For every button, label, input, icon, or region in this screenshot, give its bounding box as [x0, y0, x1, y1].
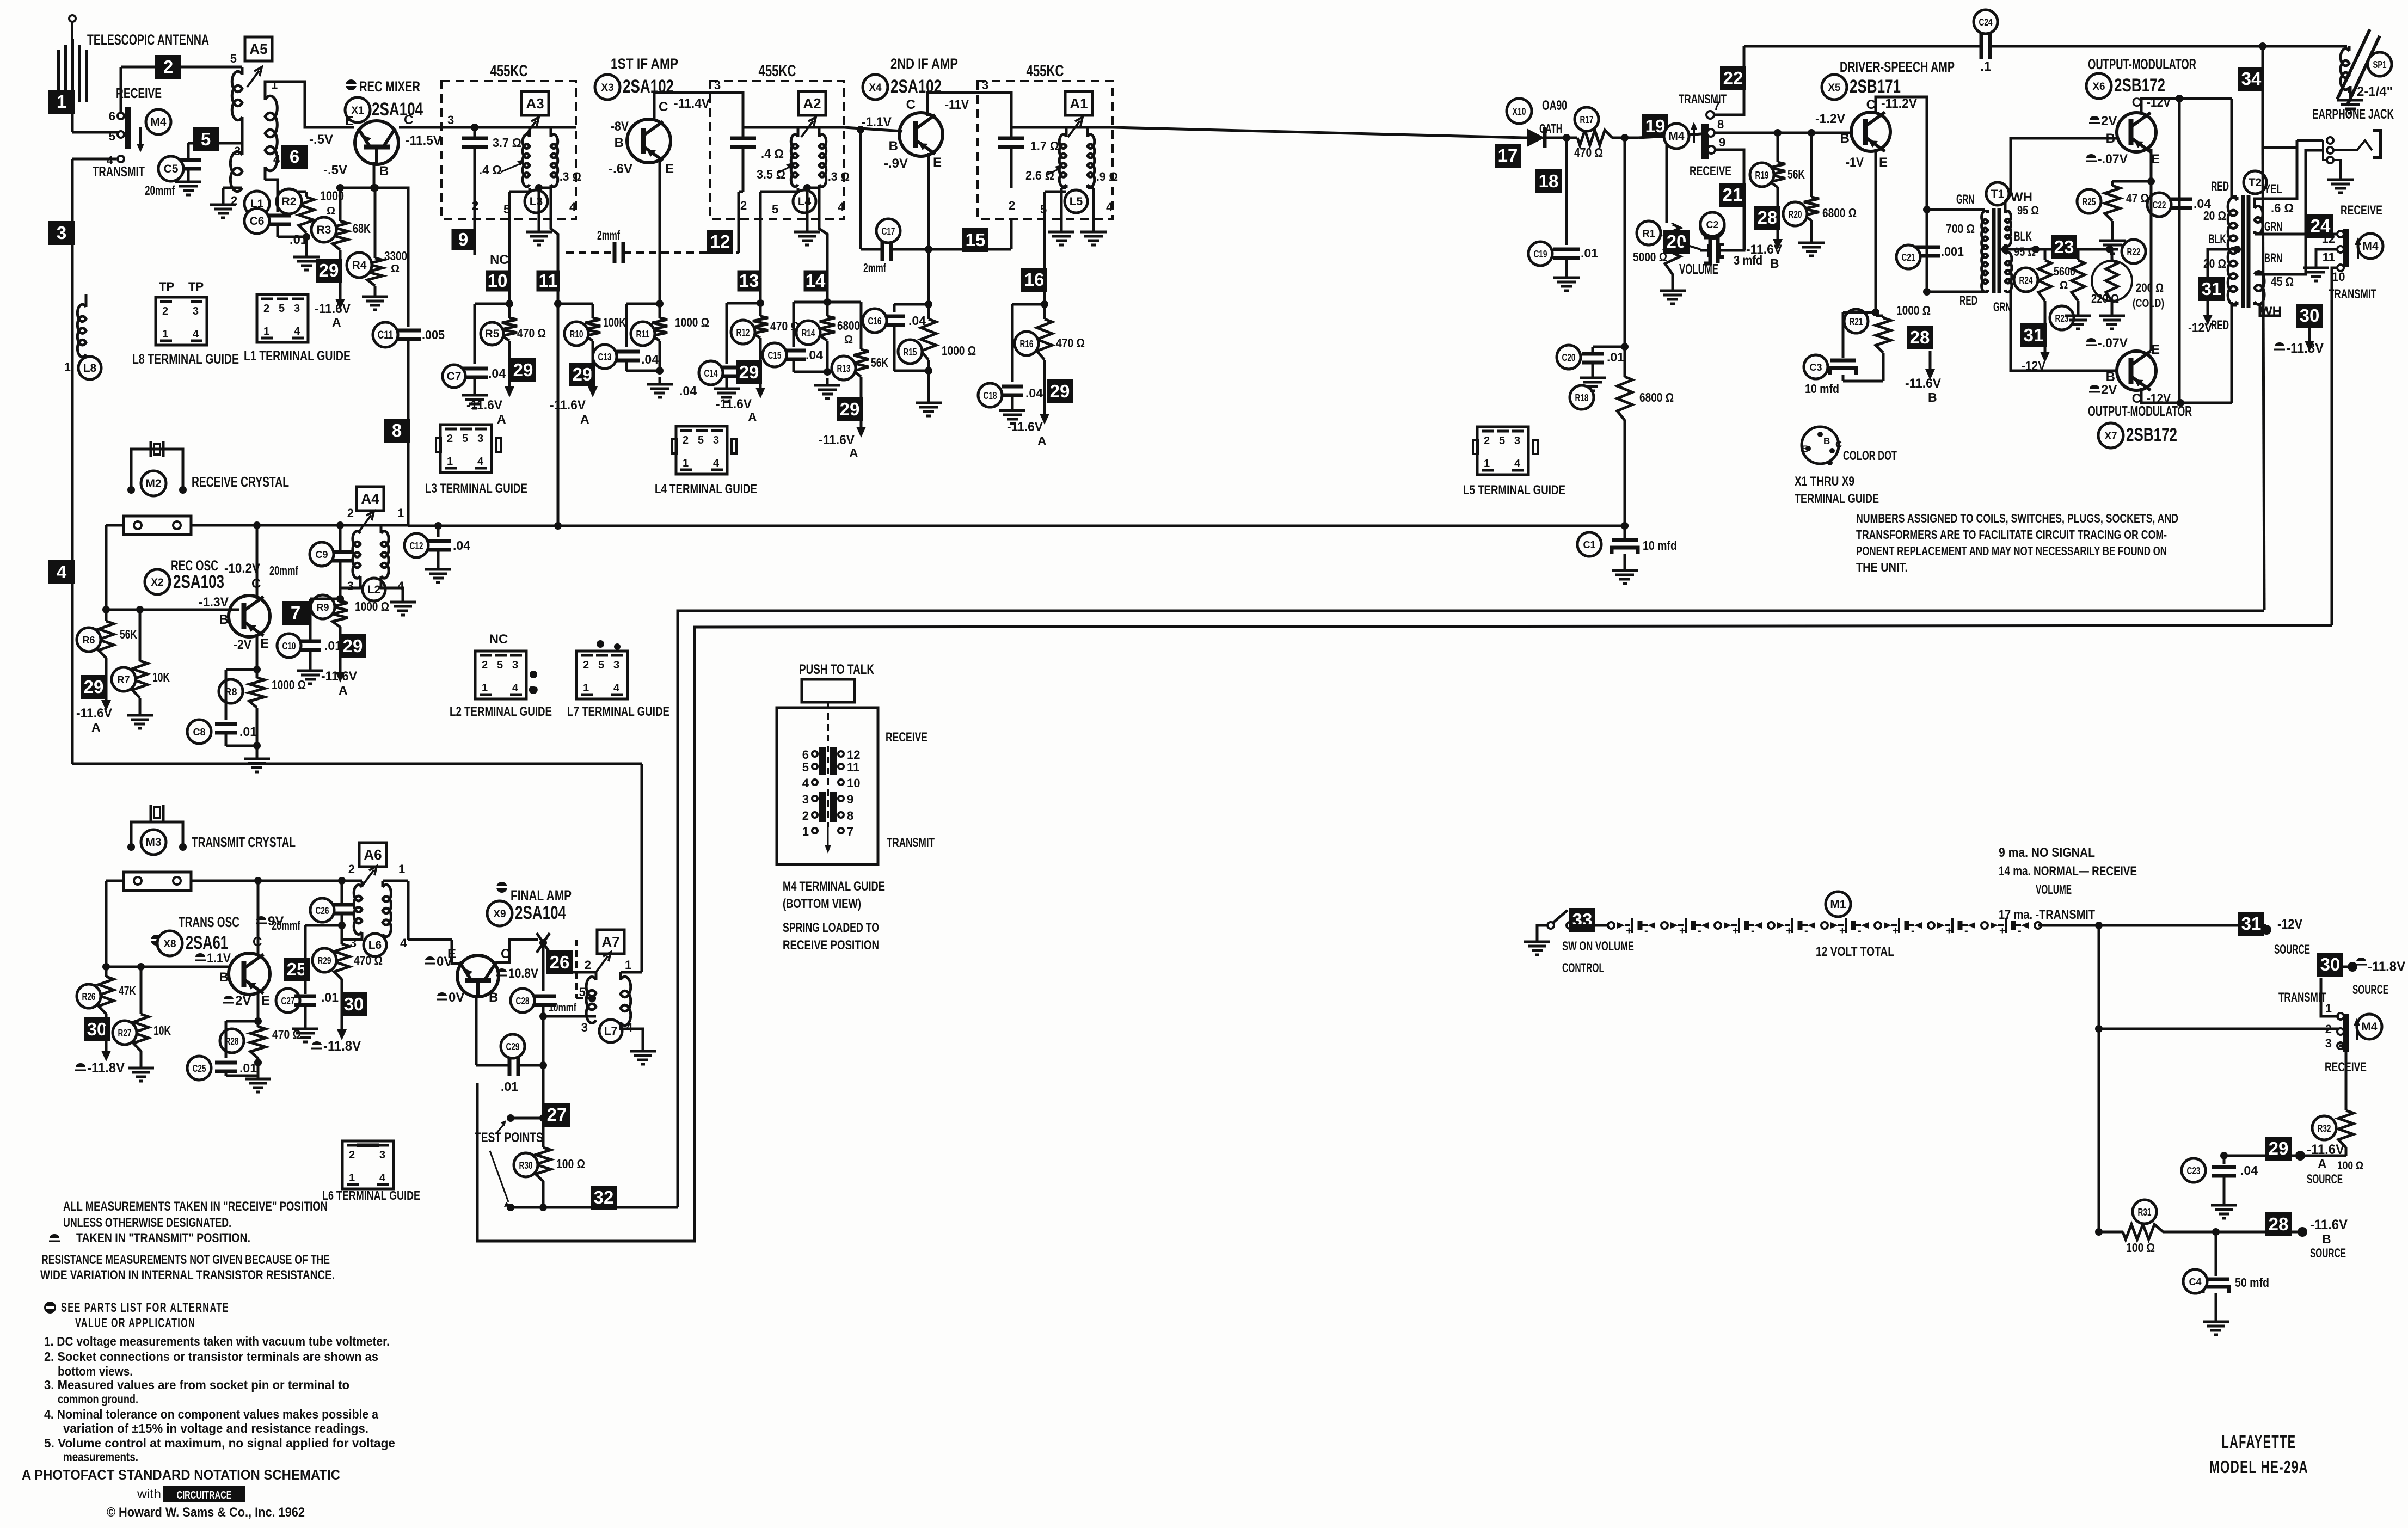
svg-text:-.5V: -.5V	[323, 163, 347, 177]
svg-text:R13: R13	[837, 363, 851, 374]
label C18 value	[1025, 386, 1043, 400]
circle C11	[373, 322, 398, 347]
pin4 L5	[1106, 200, 1113, 214]
label -11.2V X5	[1881, 96, 1917, 111]
svg-text:VOLUME: VOLUME	[1679, 261, 1718, 277]
arrow 29 R5col	[505, 353, 514, 397]
svg-text:A1: A1	[1070, 95, 1088, 112]
capacitor C27 .01	[305, 925, 306, 926]
svg-text:31: 31	[2202, 279, 2222, 299]
wire loop A upper	[678, 611, 2264, 1207]
pin5 L3	[503, 202, 510, 216]
svg-text:UNLESS OTHERWISE DESIGNATED.: UNLESS OTHERWISE DESIGNATED.	[63, 1216, 231, 1230]
label BLK T2	[2208, 232, 2226, 247]
svg-text:470 Ω: 470 Ω	[1574, 145, 1603, 159]
svg-text:5: 5	[1499, 435, 1505, 447]
svg-text:RESISTANCE MEASUREMENTS NOT GI: RESISTANCE MEASUREMENTS NOT GIVEN BECAUS…	[41, 1253, 330, 1267]
diode X10 OA90	[1524, 127, 1567, 148]
circle T2	[2244, 171, 2266, 194]
svg-text:M3: M3	[145, 836, 161, 849]
svg-text:100 Ω: 100 Ω	[2126, 1241, 2155, 1255]
wire top to speaker	[2263, 45, 2347, 48]
wire transmit rail left	[72, 159, 116, 294]
label REC MIXER	[346, 78, 420, 95]
circle R24	[2014, 268, 2038, 292]
wire X9 base down	[475, 995, 478, 1065]
arrow sw3	[2355, 237, 2361, 259]
circle X3	[595, 75, 620, 100]
svg-text:4: 4	[1514, 458, 1521, 470]
transistor X4 2SA102	[899, 113, 943, 156]
svg-text:R17: R17	[1580, 114, 1594, 125]
svg-text:R4: R4	[352, 259, 367, 272]
arrow 29 mixer b	[335, 256, 345, 310]
circuitrace 12	[707, 230, 733, 254]
label L4 terminal guide	[655, 482, 757, 496]
pin12 sw3	[2322, 232, 2335, 246]
svg-text:C: C	[404, 113, 413, 127]
wire L2 prim top	[340, 525, 360, 526]
capacitor 2mmf neut	[615, 242, 739, 263]
label TRANS OSC	[179, 914, 239, 930]
circle C2	[1700, 214, 1724, 238]
resistor R5 470	[502, 304, 517, 353]
svg-text:C29: C29	[506, 1041, 520, 1052]
pin E X5	[1879, 155, 1888, 170]
capacitor C5 20mmf	[175, 143, 201, 174]
svg-text:RECEIVE: RECEIVE	[1690, 164, 1731, 179]
pin1 batt	[2325, 1002, 2332, 1015]
svg-text:A: A	[748, 410, 757, 424]
svg-text:-11.2V: -11.2V	[1881, 96, 1917, 111]
svg-text:RED: RED	[2211, 318, 2229, 333]
L5 terminal guide	[1473, 427, 1538, 475]
test point upper	[507, 1114, 543, 1122]
svg-text:A4: A4	[361, 490, 379, 507]
svg-text:12: 12	[847, 748, 860, 762]
capacitor C4 50mfd	[2203, 1232, 2229, 1314]
wire X6 collector	[2141, 95, 2232, 114]
svg-text:1: 1	[447, 456, 453, 468]
resistor R3 68K	[333, 184, 348, 256]
svg-text:YEL: YEL	[2264, 182, 2282, 197]
label TRANSMIT sw2	[1679, 92, 1727, 107]
svg-text:-11.6V: -11.6V	[550, 398, 586, 413]
tap arrow L5	[1046, 165, 1061, 175]
ground R11	[647, 377, 673, 397]
svg-text:100 Ω: 100 Ω	[2337, 1159, 2363, 1172]
circuitrace 3	[48, 221, 75, 245]
ground C23	[2211, 1198, 2237, 1218]
resistor R29 470	[338, 922, 346, 929]
svg-text:C10: C10	[282, 641, 296, 652]
label -.07V X7	[2086, 336, 2128, 351]
svg-text:BLK: BLK	[2208, 232, 2226, 247]
svg-text:1: 1	[583, 682, 589, 694]
ground C20	[1580, 370, 1606, 391]
label L5 terminal guide	[1463, 483, 1565, 498]
svg-text:RECEIVE CRYSTAL: RECEIVE CRYSTAL	[192, 474, 289, 490]
svg-text:Ω: Ω	[327, 205, 335, 217]
circle R12	[731, 320, 755, 344]
label -1.3V X2	[199, 595, 229, 610]
svg-text:4. Nominal tolerance on compo: 4. Nominal tolerance on component values…	[44, 1407, 378, 1421]
wire pin5 node	[506, 297, 513, 308]
pin E X7	[2151, 342, 2160, 357]
coil L2 primary	[340, 525, 360, 599]
arrow 29 R6	[101, 675, 111, 711]
label .9 ohm L5	[1096, 170, 1118, 183]
svg-text:OUTPUT-MODULATOR: OUTPUT-MODULATOR	[2088, 403, 2192, 419]
label R14 value	[837, 318, 860, 346]
label -11.6V A SOURCE	[2307, 1142, 2344, 1187]
wire X9 collector	[496, 940, 538, 962]
label TRANSMIT sw1	[93, 163, 145, 180]
wire X9 emitter left	[452, 940, 460, 964]
svg-text:-.07V: -.07V	[2098, 152, 2128, 167]
label BRN	[2264, 251, 2282, 266]
circle C24	[1974, 10, 1998, 34]
capacitor C8 .01	[215, 670, 257, 746]
svg-text:-11.6V: -11.6V	[76, 706, 112, 721]
capacitor C6 .01	[265, 192, 306, 237]
earphone jack body	[2333, 131, 2381, 158]
svg-text:5: 5	[579, 985, 586, 999]
M4 guide pins right	[847, 748, 860, 838]
svg-text:.4 Ω: .4 Ω	[761, 146, 784, 161]
pin2 L2	[347, 506, 354, 520]
svg-text:11: 11	[2323, 250, 2335, 264]
svg-text:6800: 6800	[837, 318, 860, 333]
svg-text:SW ON VOLUME: SW ON VOLUME	[1562, 939, 1634, 954]
ground L3 center	[526, 184, 552, 245]
svg-text:95 Ω: 95 Ω	[2017, 204, 2039, 217]
label -.5V E	[309, 132, 333, 147]
speaker SP1	[2337, 29, 2380, 106]
wire pin7 up	[1714, 90, 1744, 115]
wire C17 to box3 pin2	[929, 219, 1011, 249]
circle R23	[2050, 306, 2074, 330]
switch on volume	[1547, 910, 1573, 929]
svg-text:+: +	[1733, 925, 1739, 937]
label -12V X6	[2147, 95, 2171, 110]
circuitrace 23	[2051, 235, 2077, 259]
ground C19	[1553, 270, 1580, 291]
svg-text:1000 Ω: 1000 Ω	[355, 599, 389, 613]
svg-text:Ω: Ω	[844, 334, 853, 346]
wire pin10 down	[2332, 268, 2338, 625]
pin B X5	[1840, 131, 1850, 146]
svg-text:3: 3	[982, 78, 988, 92]
circle R8	[219, 679, 243, 703]
circle R19	[1750, 163, 1774, 187]
wire L4 pin4 down	[819, 188, 827, 292]
svg-text:2.6 Ω: 2.6 Ω	[1025, 168, 1054, 182]
svg-text:C28: C28	[516, 996, 530, 1007]
svg-text:X6: X6	[2092, 81, 2105, 93]
wire osc left down	[105, 525, 108, 610]
svg-text:E: E	[933, 155, 942, 170]
label C24 value	[1980, 59, 1991, 74]
ground L5 center	[1048, 185, 1074, 245]
pin2 L3	[472, 199, 478, 212]
svg-text:R5: R5	[485, 328, 500, 340]
ground L5 pin4	[1080, 185, 1107, 245]
capacitor C23 .04	[2212, 1156, 2236, 1198]
svg-text:2SB171: 2SB171	[1850, 76, 1901, 97]
svg-text:3: 3	[2325, 1036, 2332, 1050]
wire to volume pot	[1663, 134, 1670, 223]
pin4 L6	[400, 936, 407, 950]
label R15 value	[942, 343, 976, 358]
resistor R19 56K	[1770, 133, 1785, 207]
ground L1	[210, 197, 236, 218]
label RECEIVE CRYSTAL	[192, 474, 289, 490]
svg-text:C15: C15	[768, 350, 782, 361]
label C25 value	[239, 1061, 257, 1075]
wire L1 sec bottom to bias	[265, 180, 278, 192]
svg-text:R24: R24	[2019, 275, 2033, 286]
svg-text:B: B	[1928, 390, 1937, 404]
svg-text:15: 15	[966, 230, 986, 250]
wire batt vertical	[2095, 925, 2103, 1232]
svg-text:B: B	[219, 612, 229, 627]
svg-text:FINAL AMP: FINAL AMP	[511, 887, 572, 904]
transistor X6 2SB172	[2117, 113, 2156, 152]
svg-text:3: 3	[714, 78, 721, 92]
wire X3 emitter down	[656, 161, 664, 308]
svg-text:M4: M4	[1668, 130, 1684, 143]
svg-text:19: 19	[1645, 116, 1666, 136]
svg-text:-11.8V: -11.8V	[323, 1039, 361, 1054]
trimmer A2	[801, 117, 816, 137]
capacitor C19 .01	[1553, 138, 1580, 270]
svg-text:5: 5	[698, 434, 704, 446]
wire junction to M4 pin8	[1638, 133, 1707, 138]
svg-text:8: 8	[1717, 118, 1724, 131]
wire T1 GRN top	[1927, 208, 1985, 211]
coil L8	[72, 294, 86, 357]
svg-text:RECEIVE POSITION: RECEIVE POSITION	[783, 938, 879, 953]
svg-text:R11: R11	[636, 329, 650, 340]
svg-text:THE UNIT.: THE UNIT.	[1856, 560, 1908, 574]
svg-text:COLOR DOT: COLOR DOT	[1843, 449, 1897, 463]
svg-text:C12: C12	[410, 541, 423, 551]
svg-text:TRANSMIT: TRANSMIT	[93, 163, 145, 180]
label R3 value	[353, 222, 371, 236]
label R11 value	[675, 315, 709, 329]
svg-text:-11.6V: -11.6V	[716, 397, 752, 412]
label L7 terminal guide	[567, 704, 669, 719]
wire X3 collector up	[654, 93, 743, 127]
capacitor C20 .01	[1582, 347, 1625, 370]
svg-text:47 Ω: 47 Ω	[2126, 191, 2149, 205]
capacitor C10 .01	[299, 599, 340, 663]
svg-text:E: E	[261, 993, 270, 1008]
svg-text:29: 29	[2269, 1138, 2289, 1158]
label C8 value	[239, 725, 257, 739]
wire L3 pin5 down	[509, 188, 530, 297]
svg-text:L3 TERMINAL GUIDE: L3 TERMINAL GUIDE	[425, 481, 527, 496]
wire X6 emitter down	[2147, 149, 2155, 351]
crystal socket trans	[124, 872, 191, 891]
resistor R4 3300	[367, 188, 383, 289]
ground C7	[462, 388, 488, 408]
svg-text:-11.8V: -11.8V	[2286, 341, 2324, 356]
svg-text:8: 8	[847, 809, 853, 823]
pin3 L1	[234, 144, 241, 158]
label R23 value	[2091, 292, 2119, 305]
label 2ND IF AMP	[890, 56, 958, 72]
svg-text:-: -	[1964, 925, 1968, 937]
L4 terminal guide	[672, 426, 736, 474]
svg-text:C6: C6	[250, 215, 265, 228]
circuitrace 29 R10col	[569, 363, 595, 386]
pin3 L5	[982, 78, 988, 92]
circle X10	[1507, 99, 1532, 124]
label C12 value	[453, 538, 470, 553]
label 2SA61	[186, 932, 228, 953]
label OUTPUT-MODULATOR X6	[2088, 56, 2196, 72]
svg-text:.3 Ω: .3 Ω	[560, 170, 581, 183]
label L8 terminal guide	[132, 352, 239, 367]
label C2 value	[1734, 253, 1762, 267]
svg-text:WIDE VARIATION IN INTERNAL TRA: WIDE VARIATION IN INTERNAL TRANSISTOR RE…	[40, 1268, 335, 1282]
svg-text:-12V: -12V	[2277, 917, 2302, 932]
svg-text:45 Ω: 45 Ω	[2271, 274, 2294, 289]
svg-text:-12V: -12V	[2188, 321, 2212, 335]
svg-text:C18: C18	[984, 390, 997, 401]
ground pin11	[2303, 260, 2329, 281]
label C28 value	[549, 1001, 576, 1014]
svg-text:32: 32	[594, 1187, 614, 1207]
svg-text:700 Ω: 700 Ω	[1946, 222, 1975, 236]
label -.07V X6	[2086, 152, 2128, 167]
capacitor C18 .04	[1002, 304, 1045, 403]
svg-text:4: 4	[838, 200, 845, 214]
svg-text:3: 3	[512, 659, 518, 671]
label -11.6V A R9	[321, 669, 357, 697]
svg-text:56K: 56K	[871, 355, 888, 370]
circuitrace 28 R19	[1754, 206, 1780, 230]
svg-text:C2: C2	[1706, 219, 1718, 230]
tap arrow L3	[501, 159, 524, 172]
label RECEIVE batt	[2325, 1060, 2367, 1075]
svg-text:C17: C17	[882, 226, 895, 237]
notes measurements	[40, 1199, 335, 1282]
svg-text:R9: R9	[316, 602, 329, 613]
arrow 31 R24	[2040, 316, 2050, 363]
circuitrace 20	[1663, 230, 1690, 254]
svg-text:3.5 Ω: 3.5 Ω	[757, 167, 785, 181]
svg-text:L2 TERMINAL GUIDE: L2 TERMINAL GUIDE	[450, 704, 552, 719]
wire R21 to 28	[1883, 351, 1908, 367]
wire batt to R31	[2095, 1228, 2103, 1236]
label C2 value	[1734, 253, 1762, 267]
circle M4 audio	[1664, 124, 1689, 149]
resistor R2 1000	[278, 192, 314, 237]
label 2.6 ohm L5	[1025, 168, 1054, 182]
wire X7 base	[2011, 291, 2117, 371]
svg-text:-1V: -1V	[1846, 155, 1864, 170]
label X1 thru X9	[1795, 474, 1879, 506]
svg-text:-11.8V: -11.8V	[2368, 959, 2405, 974]
label -2V X2	[234, 637, 251, 652]
svg-text:2SA104: 2SA104	[372, 99, 423, 120]
earphone jack contacts	[2323, 137, 2333, 163]
wire transmit RF line	[72, 294, 642, 764]
wire X8 emitter down	[257, 993, 260, 1071]
wire X2 collector up	[256, 525, 259, 599]
circuitrace 7	[282, 601, 309, 625]
svg-text:-: -	[1751, 925, 1755, 937]
label C6 value	[290, 232, 308, 247]
label GRN T1	[1956, 192, 1974, 207]
transistor X2 2SA103	[229, 596, 270, 637]
wire X4 collector	[927, 93, 1011, 127]
circuitrace 25	[284, 958, 310, 981]
pin3 L4	[714, 78, 721, 92]
circle R32	[2312, 1116, 2336, 1140]
label R32 value	[2337, 1159, 2363, 1172]
svg-text:R27: R27	[118, 1028, 132, 1039]
svg-text:2mmf: 2mmf	[597, 228, 620, 242]
svg-text:5. Volume control at maximum,: 5. Volume control at maximum, no signal …	[44, 1436, 395, 1450]
svg-text:-11.6V: -11.6V	[1007, 420, 1043, 434]
coil L5 secondary	[1088, 127, 1095, 187]
circle C2	[1700, 212, 1724, 236]
svg-text:21: 21	[1723, 185, 1743, 205]
label C20 value	[1607, 350, 1624, 364]
svg-text:-11.6V: -11.6V	[321, 669, 357, 684]
label C9 value	[269, 563, 298, 578]
label C21 value	[1941, 244, 1964, 259]
svg-text:A3: A3	[526, 95, 544, 112]
pin C X8	[253, 935, 262, 949]
ground R25	[2099, 233, 2126, 254]
label L6 terminal guide	[322, 1188, 420, 1202]
wire loop B	[477, 625, 2332, 1241]
ground C12	[425, 562, 451, 582]
pin C X6	[2132, 95, 2141, 110]
resistor R25 47	[2105, 181, 2151, 233]
capacitor C14 .04	[714, 303, 760, 381]
arrow 30 R29	[337, 991, 347, 1040]
resistor R21 1000	[1876, 312, 1891, 353]
svg-text:18: 18	[1539, 171, 1559, 191]
svg-text:2: 2	[2325, 1022, 2332, 1036]
svg-text:R25: R25	[2083, 197, 2096, 207]
svg-text:Ω: Ω	[391, 263, 400, 275]
svg-text:C26: C26	[316, 905, 329, 916]
svg-text:-11.6V: -11.6V	[315, 302, 351, 316]
circuitrace 8	[384, 419, 410, 443]
svg-text:.005: .005	[422, 328, 445, 342]
svg-text:GRN: GRN	[1956, 192, 1974, 207]
resistor R12 470	[753, 303, 768, 348]
svg-text:20mmf: 20mmf	[269, 563, 298, 578]
label numbers assigned	[1856, 511, 2178, 574]
label 2SB171	[1850, 76, 1901, 97]
wire L6 prim top	[342, 880, 362, 882]
pin2 batt	[2325, 1022, 2332, 1036]
circle R15	[898, 340, 922, 364]
mark X8 alt	[151, 935, 162, 946]
label -11.6V B R21	[1905, 376, 1941, 404]
wire node14	[824, 292, 831, 306]
svg-text:4: 4	[802, 776, 809, 790]
pin B X7	[2106, 370, 2115, 384]
